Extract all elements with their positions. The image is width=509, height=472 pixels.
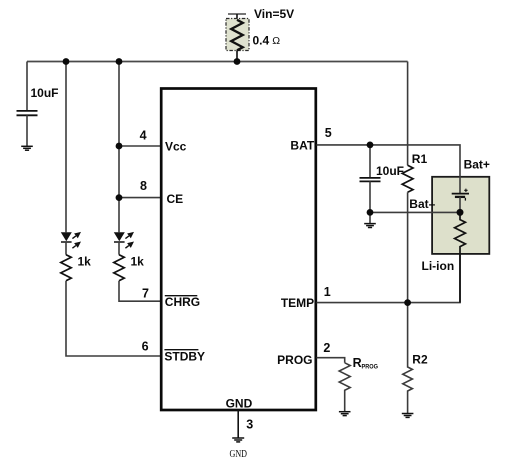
battery box Li-ion [432, 177, 489, 254]
node Vcc [116, 143, 123, 150]
svg-text:R2: R2 [412, 353, 428, 367]
svg-text:1k: 1k [131, 255, 145, 269]
power bar Vin [228, 13, 246, 15]
wire TEMP pin 1 [317, 254, 461, 303]
svg-text:4: 4 [140, 129, 147, 143]
wire into battery [459, 177, 461, 194]
wire R to CHRG [119, 281, 161, 301]
node top rail / Vin [234, 58, 241, 65]
ground (RPROG) [339, 412, 351, 416]
svg-text:Bat–: Bat– [409, 197, 435, 211]
svg-text:1k: 1k [78, 255, 92, 269]
svg-text:Li-ion: Li-ion [422, 259, 455, 273]
resistor 1k (right) [114, 255, 124, 281]
wire LED2 to R [118, 242, 120, 255]
svg-text:10uF: 10uF [376, 164, 404, 178]
wire top rail [27, 61, 408, 63]
capacitor C2 10uF plates [360, 178, 381, 182]
svg-text:R1: R1 [412, 152, 428, 166]
LED D2 [114, 232, 134, 248]
wire LED1 column top [65, 62, 67, 233]
svg-text:STDBY: STDBY [164, 350, 205, 364]
node cap2 / Bat- [367, 209, 374, 216]
ground (R2) [402, 414, 414, 418]
wire Vcc pin 4 [119, 145, 161, 147]
node top rail / LED1 [63, 58, 70, 65]
wire GND pin 3 [237, 410, 239, 438]
svg-text:0.4: 0.4 [253, 33, 270, 47]
svg-text:2: 2 [323, 341, 330, 355]
svg-text:5: 5 [325, 126, 332, 140]
wire right cap branch [369, 145, 371, 178]
resistor 0.4ohm dashed box [226, 19, 249, 51]
svg-text:GND: GND [226, 397, 253, 411]
resistor 1k (left) [61, 255, 71, 281]
wire cell to node [459, 197, 461, 213]
wire cap2 to node [369, 181, 371, 212]
svg-text:10uF: 10uF [31, 86, 59, 100]
resistor R1 zigzag [402, 165, 413, 192]
svg-text:8: 8 [140, 179, 147, 193]
resistor R2 zigzag [403, 303, 413, 414]
svg-text:Vcc: Vcc [165, 139, 187, 153]
svg-text:CE: CE [167, 192, 184, 206]
wire bar to resistor [236, 14, 238, 20]
wire resistor to rail [236, 50, 238, 61]
LED D1 [61, 232, 81, 248]
node TEMP / R1 / R2 [404, 299, 411, 306]
wire node to ground [369, 212, 371, 223]
wire BAT pin 5 to Bat+ [317, 145, 461, 177]
svg-text:7: 7 [142, 287, 149, 301]
wire Bat- horizontal [370, 211, 460, 213]
ground (right cap) [364, 224, 376, 228]
capacitor C1 10uF plates [17, 111, 38, 115]
resistor RPROG zigzag [339, 363, 350, 412]
wire R to STDBY [66, 281, 161, 356]
node BAT / cap2 [367, 142, 374, 149]
resistor 0.4ohm zigzag [231, 20, 243, 50]
svg-text:3: 3 [246, 417, 253, 431]
svg-text:BAT: BAT [290, 138, 314, 152]
svg-text:TEMP: TEMP [281, 296, 314, 310]
svg-text:Vin=5V: Vin=5V [254, 7, 294, 21]
svg-text:Ω: Ω [272, 35, 280, 47]
node CE [116, 194, 123, 201]
ground (left cap) [21, 146, 33, 150]
battery cell symbol [452, 193, 469, 195]
IC U1 box [161, 89, 316, 411]
svg-text:PROG: PROG [277, 353, 312, 367]
wire column2 top [118, 62, 120, 233]
svg-text:PROG: PROG [362, 364, 379, 371]
node top rail / column2 [116, 58, 123, 65]
battery internal resistor [455, 212, 466, 302]
wire left cap branch [26, 62, 28, 111]
svg-text:GND: GND [230, 448, 248, 460]
wire LED1 to R [65, 242, 67, 255]
wire PROG pin 2 [317, 358, 345, 363]
svg-text:R: R [353, 356, 362, 370]
svg-text:1: 1 [324, 285, 331, 299]
wire CE pin 8 [119, 197, 161, 199]
wire R1 to TEMP node [407, 192, 409, 302]
wire R1 column from rail [407, 62, 409, 166]
svg-text:CHRG: CHRG [165, 295, 200, 309]
ground (pin 3) [232, 438, 244, 442]
node battery center [457, 209, 464, 216]
svg-text:Bat+: Bat+ [464, 158, 490, 172]
svg-text:6: 6 [142, 339, 149, 353]
wire cap to ground [26, 115, 28, 146]
